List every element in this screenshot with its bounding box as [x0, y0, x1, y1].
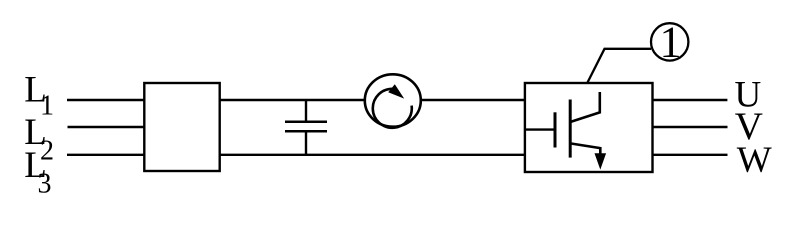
inverter block: [525, 83, 653, 172]
IGBT Q1 gate lead: [526, 128, 554, 130]
wire V output: [653, 126, 728, 128]
callout leader line to inverter: [588, 49, 652, 83]
wire L1 input: [67, 99, 145, 101]
IGBT Q1 emitter arrowhead: [595, 153, 607, 169]
IGBT Q1 emitter lead: [599, 147, 602, 158]
capacitor C bottom plate: [285, 130, 327, 133]
capacitor C top plate: [285, 120, 327, 123]
rectifier block: [144, 83, 219, 171]
wire L2 input: [68, 126, 146, 128]
choke circle (outer): [365, 74, 421, 126]
node L1 label: [24, 70, 54, 122]
svg-text:W: W: [737, 140, 772, 181]
IGBT Q1 emitter diagonal: [570, 143, 600, 148]
callout circle 1: [651, 23, 688, 60]
node L2 label: [24, 112, 54, 167]
wire W output: [653, 154, 728, 156]
IGBT Q1 collector diagonal: [570, 112, 600, 122]
capacitor C bottom lead: [305, 131, 307, 155]
svg-text:1: 1: [660, 18, 682, 67]
IGBT Q1 body bar: [569, 100, 572, 158]
wire top rail (rectifier to choke circle): [220, 99, 366, 101]
capacitor C (DC link) top lead: [305, 100, 307, 122]
rotation arrow arc: [373, 89, 412, 128]
node L3 label: [24, 145, 51, 200]
wire U output: [653, 99, 728, 101]
IGBT Q1 collector lead: [598, 92, 601, 114]
wire L3 input: [67, 154, 145, 156]
wire bottom rail (rectifier to inverter): [220, 154, 525, 156]
wire top rail (choke circle to inverter): [421, 99, 526, 101]
IGBT Q1 gate bar: [554, 112, 557, 147]
rotation arrowhead: [388, 84, 404, 98]
svg-text:3: 3: [38, 169, 52, 200]
